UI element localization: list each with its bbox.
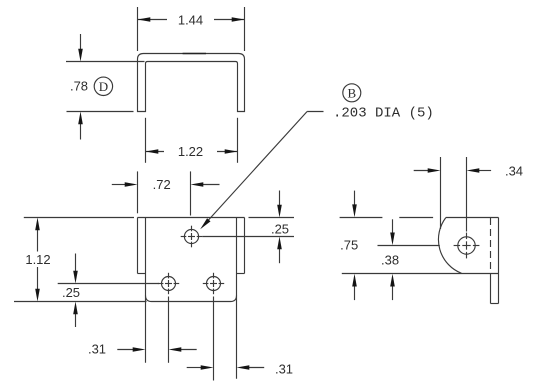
dimension .34 right arrow	[477, 170, 491, 172]
channel top edge overlap segment	[183, 53, 206, 55]
dimension .34 left arrow	[414, 170, 430, 172]
leader line to hole note	[205, 112, 307, 224]
svg-text:.25: .25	[271, 221, 289, 236]
top hole	[184, 229, 198, 243]
dimension 1.22 extension line right	[237, 118, 239, 163]
svg-text:.75: .75	[340, 237, 358, 252]
dimension .75 bottom arrow	[354, 284, 356, 300]
hole extension line below bottom right hole	[213, 297, 215, 381]
plate bottom left corner	[146, 296, 152, 302]
side view top extension line segments	[340, 217, 383, 219]
dimension .25 right top arrow	[279, 191, 281, 207]
svg-text:D: D	[99, 79, 108, 94]
dimension 1.22 extension line left	[145, 118, 147, 163]
left side tab bottom	[138, 273, 146, 275]
svg-text:1.12: 1.12	[25, 252, 50, 267]
side view lug arc	[438, 218, 461, 274]
svg-text:.31: .31	[275, 361, 293, 376]
plate right edge with extension below	[236, 218, 238, 379]
svg-text:.31: .31	[88, 341, 106, 356]
dimension .25 left bottom arrow	[75, 312, 77, 327]
side view top edge	[446, 217, 499, 219]
bottom left hole	[162, 277, 176, 291]
dimension 1.12 bottom extension line	[14, 301, 147, 303]
dimension .25 right bottom arrow	[279, 247, 281, 263]
dimension .38 bottom arrow	[392, 284, 394, 300]
svg-text:.78: .78	[70, 78, 88, 93]
dimension .72 left arrow	[112, 184, 127, 186]
dimension 1.44 extension line right	[244, 7, 246, 51]
svg-text:B: B	[347, 85, 356, 100]
dimension .38 hole center extension line	[378, 245, 440, 247]
dimension .34 extension line left	[440, 157, 442, 229]
svg-text:.34: .34	[505, 163, 523, 178]
side view right edge	[498, 218, 500, 304]
dimension .25 right hole center extension line	[202, 236, 294, 238]
plate bottom right corner	[231, 296, 237, 302]
side view bottom edge with extension	[342, 273, 499, 275]
right side tab bottom	[237, 273, 245, 275]
svg-text:1.44: 1.44	[178, 12, 203, 27]
dimension .72 right arrow	[201, 184, 219, 186]
svg-text:.72: .72	[153, 177, 171, 192]
dimension .78 bottom arrow	[80, 122, 82, 139]
dimension .72 extension line right	[190, 171, 192, 215]
dimension .25 left extension line through holes	[58, 283, 159, 285]
dimension .78 bottom extension line	[67, 111, 134, 113]
dimension .31 right arrows	[187, 367, 203, 369]
side view hidden edge (dashed)	[490, 218, 492, 274]
bottom right hole	[207, 277, 221, 291]
svg-text:.38: .38	[381, 252, 399, 267]
dimension .38 top arrow	[392, 219, 394, 234]
dimension 1.44 dimension line	[138, 19, 168, 21]
dimension 1.12 dimension line with arrows	[37, 229, 39, 252]
dimension .75 top arrow	[354, 191, 356, 207]
left side tab outer edge	[137, 218, 139, 274]
dimension .78 top extension line	[66, 61, 145, 63]
dimension 1.12 top extension line	[24, 217, 134, 219]
channel outline (top view, inverted U profile)	[138, 54, 245, 112]
svg-text:.25: .25	[62, 285, 80, 300]
dimension .25 left top arrow	[75, 254, 77, 274]
dimension 1.44 extension line left	[137, 7, 139, 51]
datum circle D	[94, 77, 112, 95]
dimension .72 extension line left	[137, 171, 139, 213]
plate left edge with extension below	[145, 218, 147, 363]
svg-text:1.22: 1.22	[178, 144, 203, 159]
right side tab outer edge	[244, 218, 246, 274]
front plate top edge	[138, 217, 245, 219]
svg-text:.203 DIA (5): .203 DIA (5)	[333, 106, 434, 122]
dimension .31 left arrows	[117, 349, 134, 351]
dimension .25 right top extension line	[249, 217, 295, 219]
dimension .34 extension line right	[466, 157, 468, 232]
side view lower leg left edge	[490, 274, 492, 304]
side view hole	[458, 237, 475, 254]
dimension .78 top arrow	[80, 34, 82, 52]
plate bottom edge	[152, 301, 231, 303]
hole extension line below bottom left hole	[168, 297, 170, 363]
dimension 1.22 dimension line	[146, 151, 165, 153]
datum circle B	[343, 84, 361, 102]
side view lower leg bottom	[491, 303, 499, 305]
